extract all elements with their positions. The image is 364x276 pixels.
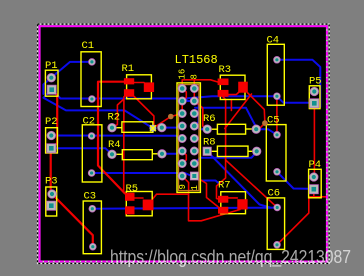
connector P3 pad 2 [47,201,56,210]
capacitor C6 outline [267,198,284,250]
svg-text:C3: C3 [84,191,97,203]
wire red via V2 to R6.2 [257,123,265,131]
resistor R3 outline [220,75,245,99]
wire blue C3.1 to C6.1 long horizontal [92,208,277,209]
connector P5 pad 1 [310,87,319,96]
connector P2 pad 2 [47,144,56,153]
wire red stub to R2.1 [112,99,124,128]
wire blue P2.2 to R4.1 [51,148,112,154]
resistor R3 pads (SMD red) [218,79,229,86]
resistor R4 body [122,150,152,160]
svg-text:R2: R2 [108,112,121,124]
wire blue C2.2 to U1 pin8 [92,173,191,176]
resistor R5 outline [126,192,152,216]
wire red R1.2 to pad X [134,97,154,128]
resistor R6 leads [210,128,217,130]
svg-text:R7: R7 [218,180,231,192]
wire red U1 pin9 branch down [182,176,188,194]
wire blue R2.2 to U1 pin4 [162,126,182,128]
resistor R2 pad 1 [108,123,117,132]
resistor R8 pad 2 [252,147,261,156]
connector P1 pad 2 [47,85,56,94]
connector P2 pad 1 [47,131,56,140]
wire red R3.3 to via V2 [248,93,265,123]
svg-text:C5: C5 [267,115,280,127]
wire red R3.3 diagonal to R7 net [225,94,252,129]
via V2 [262,120,268,126]
svg-text:R4: R4 [108,139,121,151]
capacitor C5 pads [274,131,281,138]
resistor R2 lead [116,127,122,129]
wire blue R8.1 diagonal to C6.1 [207,151,270,207]
wire blue P1.1 stub to board edge [43,78,51,94]
wire red C4.2 to C5.1 [276,97,278,135]
connector P4 pad 2 [309,185,318,194]
wire blue C4.2 to P5.2 [277,96,314,103]
resistor R1 outline [127,75,152,99]
svg-text:P1: P1 [45,60,58,72]
resistor R6 pad 1 [203,125,212,134]
resistor R8 pad 1 (square) [203,147,211,155]
wire red P5.2 to P4.1 [313,103,315,177]
svg-text:P3: P3 [45,176,58,188]
connector P3 pad 1 [48,190,57,199]
connector P3 outline [46,187,57,216]
svg-text:P4: P4 [309,159,322,171]
connector P5 pad 2 [310,99,319,108]
wire red U1 right col rows1-2 [193,89,195,102]
op-amp U1 pads right column pins 8..2 [190,84,198,92]
svg-text:https://blog.csdn.net/qq_24213: https://blog.csdn.net/qq_24213087 [110,247,351,268]
wire red P1.2 to P3.1 [51,91,58,195]
resistor R4 pad 2 [158,150,167,159]
wire blue C5.2 to P4.2 [277,172,314,189]
connector P1 pad 1 [47,73,56,82]
wire red R5 internal link [135,197,144,199]
wire red diagonal to C6.1 [226,160,278,208]
wire blue U1 pin1 stub right [194,176,219,184]
connector P4 outline [309,169,322,198]
capacitor C2 pads [88,133,95,140]
wire red U1 jog rows1-2 [182,89,186,102]
wire blue jog right of U1 pins 15-12 [194,101,198,126]
wire red P4.2 to C6.2 [277,189,314,244]
resistor R4 pad 1 [108,150,117,159]
connector P4 pad 1 [310,173,319,182]
wire red stub near R3 [230,100,232,111]
capacitor C3 outline [83,201,101,254]
wire blue R4.2 to U1 pin6 [162,151,182,154]
wire red R3 internal link [229,92,240,95]
wire red U1 pin9 stub up [193,80,195,89]
capacitor C3 pads [89,205,96,212]
svg-text:C6: C6 [268,188,281,200]
wire red U1 pin15 curve to R6.1 [194,101,207,129]
black PCB editor field [41,27,326,260]
resistor R5 pads (SMD red) [125,193,135,201]
wire red P3.1 to C3.2 [52,194,93,247]
wire red stub right of P4 [309,196,326,198]
svg-text:C4: C4 [267,35,280,47]
resistor R7 outline [221,192,246,214]
wire blue U1 area to via V2 [195,108,257,129]
capacitor C2 outline [82,125,102,182]
board outline keepout (magenta dashed) [39,25,328,262]
wire blue long horizontal to C4.2 [185,96,277,98]
resistor R1 pads (SMD red) [124,78,134,84]
svg-text:9: 9 [178,184,188,189]
svg-text:R3: R3 [219,64,232,76]
resistor R8 body [217,146,248,156]
op-amp U1 LT1568 outline [177,83,200,192]
wire red R3.2 down to R7.1 [217,97,226,200]
resistor R6 body [217,124,245,134]
capacitor C4 outline [267,44,284,105]
wire blue P1.2 lower run to pad X [43,90,152,129]
wire red U1 pin16 to R3.1 [182,80,218,89]
capacitor C1 pads [89,59,96,66]
svg-text:C1: C1 [82,40,95,52]
wire red R7 internal link [228,197,237,199]
resistor R8 leads [211,150,217,152]
svg-text:R8: R8 [203,137,216,149]
op-amp U1 courtyard (orange) [179,85,199,191]
wire blue P2.1 via C2.1 to U1 pin5 [52,136,182,139]
svg-text:LT1568: LT1568 [175,53,218,67]
wire red R5.3 to R7.3 [152,194,240,221]
op-amp U1 pads left column pins 16..9 [178,84,186,92]
capacitor C1 outline [81,52,101,107]
wire blue P1.1 to C1.1 [51,62,92,78]
wire red U1 pin1 to R7.2 [194,176,218,207]
via V1 [168,114,174,120]
capacitor C4 pads [274,56,281,63]
wire red feed to R1.1 and down to R5.1 [98,82,125,194]
wire red U1 left col rows2-3 [181,101,183,114]
op-amp U1 pin 1 square pad [190,172,198,180]
svg-text:P5: P5 [309,76,322,88]
svg-text:16: 16 [178,69,188,80]
svg-text:P2: P2 [45,116,58,128]
wire blue U1 pin12 to R6.1 [194,126,207,129]
resistor R2 pad 2 [158,123,167,132]
resistor R7 pads (SMD red) [218,196,228,203]
resistor R4 leads [116,153,122,155]
svg-text:8: 8 [190,74,200,79]
node X free pad with marker [150,125,157,132]
capacitor C6 pads [274,204,281,211]
wire red pad X via V1 to U1 pin14 [153,114,182,129]
wire blue U1 pin10 to R8.2 [194,152,256,164]
wire blue P1.2 via C1.2 to U1 pin15 [52,90,195,101]
svg-text:R5: R5 [126,183,139,195]
svg-text:C2: C2 [83,116,96,128]
svg-text:R6: R6 [203,113,216,125]
wire blue R6.2 to C5.1 [256,129,277,135]
board outline selection marquee (outer dashed) [38,24,330,263]
svg-text:R1: R1 [122,63,135,75]
wire blue C4.1 to P5.1 [277,60,320,107]
resistor R6 pad 2 [252,125,261,134]
connector P5 outline [309,86,320,109]
capacitor C5 outline [266,125,286,181]
svg-text:1: 1 [190,185,200,190]
connector P2 outline [46,128,58,153]
wire red R1.2 down to R5.1 [123,97,125,193]
wire red R1 internal link [134,82,144,84]
wire red U1 jog rows6-7 [182,151,186,164]
resistor R2 body [122,122,153,133]
connector P1 outline [45,70,58,96]
